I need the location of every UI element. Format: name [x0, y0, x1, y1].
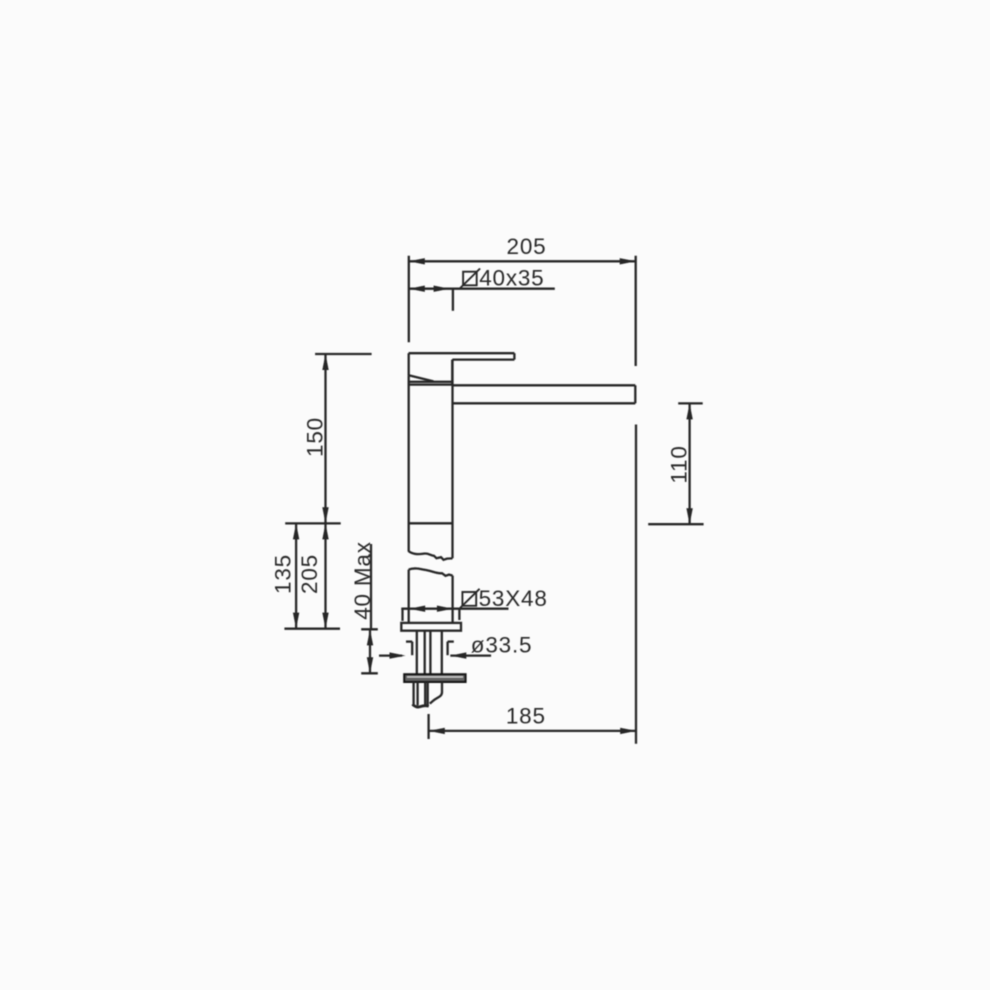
body right edge upper — [451, 360, 453, 559]
dim 150 top arrow — [322, 354, 328, 370]
body break wavy lower edge of upper part — [409, 551, 453, 560]
dim 33.5 right leader line — [450, 654, 491, 656]
handle lever bottom edge — [452, 358, 514, 360]
nut bottom wavy break — [412, 704, 428, 707]
dim 205 dimension line — [409, 260, 636, 262]
dim 53x48 right extension stub — [458, 609, 460, 620]
body top line — [409, 383, 453, 385]
body left edge upper — [408, 376, 410, 552]
handle lever right end — [513, 353, 515, 359]
dim 185 dimension line — [429, 730, 636, 732]
handle left edge — [408, 353, 410, 376]
cartridge right edge under lever — [451, 360, 453, 385]
dim 135 dimension line — [295, 523, 297, 628]
svg-text:205: 205 — [507, 234, 547, 259]
dim 40x35 extension drop — [452, 289, 454, 311]
dim 205 vertical dimension line — [324, 523, 326, 628]
shank inner right line — [429, 631, 431, 675]
lock washer (dark) — [404, 674, 465, 682]
handle wedge slant — [409, 375, 434, 381]
dim 185 left extension tick — [427, 714, 429, 739]
dim 110 dimension line — [688, 403, 690, 524]
dim 135 top arrow — [293, 523, 299, 539]
shank outer left line — [416, 631, 418, 675]
dim 40x35 left arrow — [409, 286, 425, 292]
dim 40 bottom tick — [361, 672, 378, 674]
dim 40x35 right arrow — [434, 286, 450, 292]
spout bottom edge — [453, 402, 636, 404]
dim 40max underline — [370, 544, 372, 630]
supply pipe stub wavy cut — [430, 682, 442, 704]
tick at lower datum left — [284, 628, 340, 630]
spout right end — [634, 385, 636, 403]
svg-text:185: 185 — [506, 704, 546, 729]
dim 110 top tick — [678, 402, 703, 404]
dim 185 right extension line (long) — [635, 425, 637, 744]
dim 150 dimension line — [324, 354, 326, 523]
dim 135 bottom arrow — [293, 613, 299, 629]
dim 33.5 right stub vertical — [446, 642, 448, 656]
shank outer right line — [441, 631, 443, 675]
base flange — [401, 623, 461, 631]
dim 205v bottom arrow — [322, 613, 328, 629]
dim 40 bottom arrow — [367, 657, 373, 673]
dim 53x48 diameter symbol — [462, 592, 476, 606]
dim 53x48 right arrow — [437, 606, 453, 612]
dim 40 top tick — [361, 628, 378, 630]
tick at countertop level left — [285, 522, 341, 524]
countertop line across body — [409, 522, 453, 524]
dim 40 top arrow — [367, 629, 373, 645]
svg-text:205: 205 — [297, 554, 322, 594]
dim 110 top arrow — [686, 403, 692, 419]
nut inner right line — [424, 682, 426, 706]
dim 185 right arrow — [620, 728, 636, 734]
dim 33.5 left arrow — [390, 652, 406, 658]
dim 53x48 left extension stub — [401, 609, 403, 621]
nut left edge — [412, 682, 414, 705]
dim 33.5 right stub horizontal — [448, 640, 454, 642]
dim 205 left extension line — [408, 256, 410, 342]
dim 110 bottom arrow — [686, 508, 692, 524]
dim 205 right arrow — [620, 258, 636, 264]
svg-text:150: 150 — [303, 417, 328, 457]
body right edge lower — [451, 576, 453, 623]
nut right edge — [427, 682, 429, 705]
dim 53x48 left arrow — [409, 606, 425, 612]
handle lever top edge — [409, 352, 515, 354]
svg-text:53X48: 53X48 — [479, 586, 548, 611]
spout top edge — [452, 384, 635, 386]
dim 33.5 left stub horizontal — [406, 640, 412, 642]
dim 185 left arrow — [429, 728, 445, 734]
dim 53x48 dimension/leader line — [401, 608, 508, 610]
dim 205v top arrow — [322, 523, 328, 539]
svg-text:135: 135 — [270, 554, 295, 594]
nut inner left line — [416, 682, 418, 706]
dim 110 bottom tick — [648, 523, 703, 525]
cartridge collar line — [409, 381, 453, 383]
body break wavy top edge of lower part — [409, 568, 453, 575]
svg-text:110: 110 — [666, 445, 691, 483]
svg-text:ø33.5: ø33.5 — [471, 632, 533, 657]
body left edge lower — [408, 570, 410, 623]
dim 205 right extension line upper — [635, 256, 637, 366]
shank inner left line — [424, 631, 426, 675]
dim 33.5 left arrow line — [379, 654, 402, 656]
tick at handle top level — [315, 353, 372, 355]
svg-text:40 Max: 40 Max — [350, 541, 375, 620]
dim 150 bottom arrow — [322, 507, 328, 523]
dim 40x35 diameter symbol — [463, 272, 477, 286]
dim 33.5 left stub vertical — [411, 642, 413, 656]
dim 40x35 leader line — [409, 288, 555, 290]
dim 40 dimension line — [369, 629, 371, 673]
svg-text:40x35: 40x35 — [479, 266, 544, 291]
dim 205 left arrow — [409, 258, 425, 264]
dim 33.5 right arrow — [450, 652, 466, 658]
